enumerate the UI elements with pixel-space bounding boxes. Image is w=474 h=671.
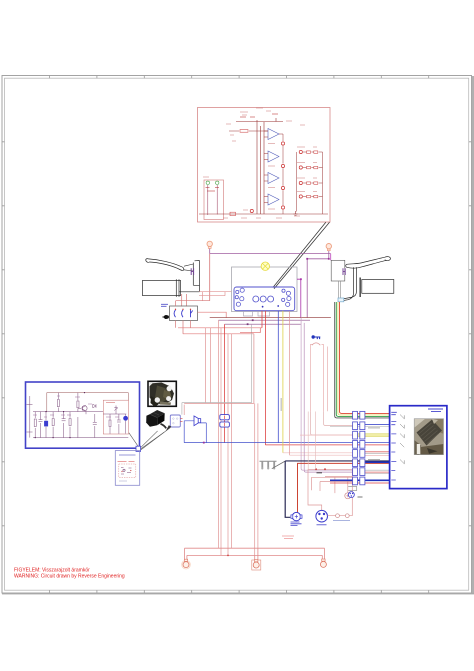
horn button — [164, 315, 167, 319]
LED D5 — [299, 150, 302, 153]
pod right wire — [198, 312, 227, 317]
resistor R22 — [52, 419, 54, 426]
pink wire — [289, 312, 291, 456]
gray sheath — [182, 325, 252, 415]
rail resistor R13 — [230, 212, 236, 215]
resistor R24 — [69, 419, 71, 426]
flasher connector — [170, 415, 180, 427]
yellow wire — [282, 311, 284, 453]
lamp R4 — [282, 298, 285, 301]
bus wire B — [219, 319, 311, 321]
LED D3 — [281, 186, 284, 189]
ground lug — [348, 487, 357, 491]
purple drop 2 to row7 — [304, 323, 352, 472]
switch 3 — [191, 310, 193, 317]
electrolytic cap C22 — [44, 421, 48, 427]
resistor R7 — [307, 182, 311, 184]
lamp R1 — [282, 289, 285, 292]
photo content — [149, 383, 174, 407]
panel pins — [262, 306, 264, 308]
lamp R2 — [286, 291, 290, 295]
bus wire 1 — [256, 120, 258, 214]
relay wire tail — [161, 424, 167, 429]
junction — [252, 319, 254, 321]
row5 wire a — [283, 452, 353, 454]
switch contacts — [176, 308, 191, 310]
turn signal wire right drop — [307, 254, 329, 318]
junction — [247, 323, 249, 325]
stator lead — [285, 461, 290, 517]
red engine feed — [298, 463, 390, 512]
pin stubs — [27, 405, 33, 433]
illumination lamp — [261, 262, 269, 270]
grip flange — [359, 278, 361, 298]
CDI unit schematic box — [26, 382, 140, 448]
note title — [119, 454, 136, 456]
LED D8 — [299, 195, 302, 198]
wire to right switch pod — [330, 254, 332, 261]
grip — [143, 280, 181, 295]
pod output wires — [176, 321, 191, 334]
lamp L4 — [240, 297, 244, 301]
SHEETFRAME — [2, 76, 474, 595]
switch S3 — [400, 434, 404, 439]
lamp C1 — [253, 296, 259, 302]
wire to gauges — [199, 292, 232, 301]
junction — [306, 258, 308, 260]
op-amp U1B — [268, 151, 279, 162]
indicator panel — [234, 287, 295, 311]
regulator diode 2 — [345, 514, 349, 518]
switch S2 — [400, 424, 404, 429]
mirror mount — [343, 268, 346, 275]
grip — [362, 280, 394, 294]
color table note 1 — [368, 427, 380, 429]
op-amp U1C — [268, 173, 279, 184]
op-amp input stubs — [264, 131, 268, 203]
stator to ECU wire — [285, 460, 389, 462]
wire drop 8 — [253, 334, 255, 404]
clutch lever — [146, 259, 184, 271]
left handlebar assembly — [143, 259, 232, 334]
splice label — [317, 472, 323, 474]
switch 2 — [182, 310, 183, 317]
tail light bus — [182, 548, 327, 570]
lever perch — [179, 261, 200, 292]
ignition switch arc — [312, 343, 320, 345]
wire drop 5 fused feed — [224, 324, 226, 442]
left bus — [29, 396, 31, 438]
fuse F2 — [220, 422, 230, 427]
pin labels — [391, 412, 397, 480]
ECU box — [390, 406, 447, 489]
fuse F1 — [220, 415, 230, 420]
resistor R25 — [77, 401, 79, 408]
connector pinout note box — [115, 451, 139, 486]
harness wire black — [335, 302, 390, 418]
elbow wire — [240, 328, 260, 333]
bus wire A — [210, 317, 331, 319]
tail lamp centre — [252, 560, 261, 570]
connector sub-box J1 — [204, 180, 224, 220]
op-amp U1A — [268, 129, 279, 140]
lever clamp box — [331, 260, 345, 281]
switch 1 — [174, 310, 175, 317]
small round connector — [348, 492, 354, 498]
branch wire 2 — [320, 482, 353, 492]
small labels — [282, 536, 294, 539]
bus wire 3 — [263, 122, 265, 214]
wire drop 6 — [227, 334, 229, 556]
switch S4 — [400, 443, 404, 447]
LED D1 — [281, 142, 284, 145]
harness wire red — [340, 302, 390, 413]
middle drops — [255, 548, 258, 560]
thyristor pack — [123, 416, 128, 421]
component labels — [33, 396, 119, 417]
resistor R5 — [307, 151, 311, 153]
instrument cluster — [232, 262, 302, 318]
detail callout leader — [273, 222, 330, 288]
color table note 2 — [368, 459, 380, 461]
resistor R11 — [314, 182, 318, 184]
note footer — [119, 480, 127, 482]
switch S1 — [400, 415, 404, 420]
pink return — [184, 403, 254, 415]
tail drop right — [257, 403, 259, 548]
warning text — [14, 568, 125, 580]
resistor R9 — [314, 151, 318, 153]
vcc rail — [236, 118, 283, 122]
callout arrowhead — [166, 425, 172, 431]
row6 wire blue — [365, 461, 390, 463]
tail lamp right — [320, 559, 326, 567]
op-amp U1D — [268, 194, 279, 205]
LED D7 — [299, 181, 302, 184]
rectifier — [345, 493, 351, 499]
ignition wire to row2 — [324, 411, 353, 425]
fuse link wires — [224, 416, 226, 427]
rail marks — [240, 114, 278, 117]
right LED column wire — [296, 152, 298, 212]
cap C24 — [93, 414, 97, 438]
LED D4 — [281, 206, 284, 209]
input resistor R1 — [240, 130, 248, 133]
brake lever — [346, 257, 391, 269]
regulator label — [333, 519, 350, 521]
box outline — [26, 382, 140, 448]
pod label — [161, 304, 168, 306]
row5 wire b — [290, 454, 353, 456]
ground rail — [199, 213, 328, 215]
grip flange — [176, 279, 179, 297]
top rail — [47, 393, 129, 412]
wire label rotated — [280, 398, 283, 411]
lamp L5 — [236, 302, 240, 306]
board outline — [198, 108, 331, 223]
row3 wire yellow — [353, 434, 390, 437]
junction — [227, 555, 229, 557]
connector pins column 2 — [360, 411, 365, 484]
lamp L1 — [236, 290, 239, 293]
clamp wires — [339, 281, 341, 298]
splice dot — [315, 468, 317, 470]
capacitor C23 — [62, 412, 66, 438]
harness to ECU connector field — [300, 411, 390, 497]
LED D2 — [281, 164, 284, 167]
wire drop 1 — [205, 328, 207, 404]
flasher relay photo — [146, 410, 166, 428]
terminal B — [216, 181, 219, 184]
resistor R12 — [314, 195, 318, 197]
junction — [328, 258, 330, 260]
row2 wire blue — [353, 423, 390, 425]
mirror mount — [191, 268, 194, 275]
wire drop 3 — [218, 320, 220, 548]
row7 wires right — [365, 469, 390, 471]
hv sub-box — [103, 400, 128, 434]
connector pins column 1 — [353, 411, 358, 484]
resistor R23 — [57, 400, 59, 407]
switch S5 — [400, 460, 404, 465]
callout to connector — [129, 427, 171, 450]
lamp L3 — [235, 296, 238, 299]
engine area components — [260, 412, 390, 539]
fused lighting wire — [308, 469, 353, 510]
wires from pod — [182, 294, 187, 306]
front turn signal bulb left — [207, 241, 212, 246]
motor label — [291, 522, 302, 526]
transistor Q21 — [82, 406, 87, 411]
pinout marks — [123, 469, 125, 471]
input wire — [229, 130, 268, 132]
pass-through wire b — [315, 412, 317, 470]
lamp C3 — [268, 296, 274, 302]
front turn signal bulb right — [326, 244, 331, 249]
connector shells — [244, 312, 270, 317]
terminal A — [206, 181, 209, 184]
ignition wire to row3 — [310, 411, 352, 435]
resistor R8 — [307, 195, 311, 197]
ecu title — [428, 409, 443, 411]
svg-text:WARNING: Circuit drawn by Reve: WARNING: Circuit drawn by Reverse Engine… — [14, 574, 125, 580]
flasher photo box — [129, 381, 230, 451]
harness wire yellow — [338, 302, 390, 415]
ignition switch housing — [310, 345, 327, 412]
rail LED D9 — [250, 209, 253, 212]
stator comb — [260, 460, 277, 462]
left switch pod — [170, 306, 198, 321]
tail lamp left — [182, 559, 191, 569]
wire left signal feed — [209, 254, 211, 301]
starter motor M — [292, 512, 300, 520]
op-amp labels — [268, 144, 275, 210]
handlebar tube — [340, 267, 357, 301]
row labels — [297, 147, 317, 192]
bottom rail — [33, 437, 128, 439]
cluster housing — [232, 267, 298, 312]
lamp R5 — [286, 302, 290, 306]
sub diode D22 — [114, 406, 117, 415]
resistor R6 — [307, 166, 311, 168]
bus wire C — [225, 323, 301, 325]
splice dot — [324, 468, 326, 470]
sub-box wires — [208, 185, 217, 215]
lamp R3 — [287, 296, 291, 300]
right column join wires — [303, 152, 323, 214]
bus wire 2 — [260, 126, 262, 214]
bundle connector — [338, 298, 344, 302]
comb lead diagonal — [272, 461, 286, 469]
pod bus wire — [178, 328, 262, 334]
bus lower — [187, 555, 322, 559]
branch wire — [312, 477, 353, 490]
right handlebar assembly — [331, 257, 394, 418]
horn wire 2 — [201, 423, 207, 443]
leader line 2 — [273, 222, 326, 287]
junction — [203, 442, 205, 444]
pod feed wire — [176, 301, 210, 306]
lug label — [358, 496, 363, 498]
resistor R21 — [34, 412, 36, 438]
horn wires — [184, 421, 194, 443]
row8 wires — [330, 479, 390, 481]
diode D21 — [93, 404, 96, 408]
sub label — [106, 402, 115, 404]
bus upper — [185, 548, 325, 560]
resistor R10 — [314, 166, 318, 168]
magneto connector — [316, 510, 328, 522]
ignition key — [315, 337, 321, 339]
tail drop left — [254, 403, 256, 555]
rail marks — [223, 210, 300, 218]
lever link — [184, 264, 194, 271]
regulator line — [328, 515, 353, 517]
tach feed — [300, 278, 302, 280]
lamp L2 — [240, 288, 244, 292]
main wiring harness — [178, 311, 390, 556]
ECU photo — [414, 419, 443, 455]
turn signal wire — [210, 249, 331, 254]
pass-through wire a — [307, 412, 309, 470]
misc labels — [203, 108, 305, 177]
wire drop 2 — [210, 328, 212, 404]
sub cap C25 — [117, 414, 121, 434]
blue wire — [184, 311, 389, 443]
brake lamp wire — [261, 311, 263, 328]
purple drop to row7 — [301, 318, 353, 471]
sub rail — [103, 413, 126, 415]
mid rail — [33, 411, 104, 413]
horn — [194, 416, 201, 426]
gnd symbol — [294, 211, 298, 216]
wire drop 4 — [220, 328, 222, 556]
wire drop 7 — [231, 334, 233, 548]
regulator diode 1 — [336, 514, 340, 518]
junction dots — [35, 393, 84, 438]
lamp C2 — [260, 296, 266, 302]
LED D6 — [299, 166, 302, 169]
magneto label — [317, 524, 327, 526]
harness wire green — [336, 302, 389, 416]
note subtitle — [118, 461, 135, 463]
terminal labels — [206, 188, 220, 192]
output wires — [279, 134, 283, 214]
indicator driver board detail box — [198, 108, 331, 223]
corner connector glyph — [136, 446, 141, 451]
capacitor C21 — [39, 412, 43, 438]
sub resistor R26 — [109, 420, 111, 427]
row5 wires right — [365, 451, 390, 453]
red feed wire — [265, 311, 389, 445]
pinout dashed box — [119, 464, 136, 477]
leader line 1 — [274, 222, 330, 288]
